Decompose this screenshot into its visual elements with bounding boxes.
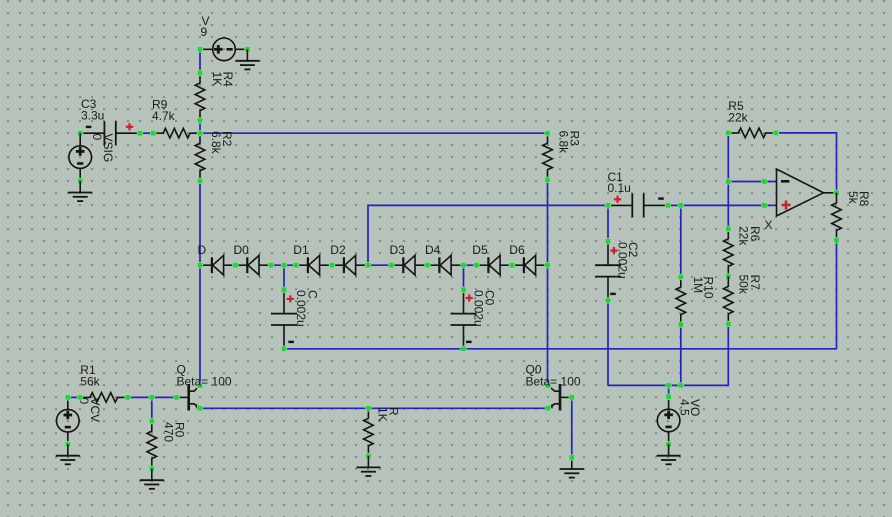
label R1 56k bbox=[80, 363, 100, 388]
label C2 0.002u bbox=[616, 242, 641, 279]
transistor Q bbox=[174, 383, 203, 411]
wire bbox=[608, 324, 728, 385]
label R3 6.8k bbox=[556, 131, 581, 155]
label D1 bbox=[293, 243, 309, 257]
svg-text:D5: D5 bbox=[472, 243, 488, 257]
svg-text:X: X bbox=[765, 218, 773, 232]
wire bbox=[668, 204, 777, 206]
label R4 1K bbox=[210, 72, 235, 88]
node Q0 base ground bbox=[569, 455, 574, 460]
wire bbox=[271, 264, 296, 266]
resistor R0 bbox=[147, 418, 157, 471]
svg-text:0: 0 bbox=[90, 134, 104, 141]
wire bbox=[571, 397, 573, 457]
label Q Beta bbox=[177, 363, 232, 389]
label D5 bbox=[472, 243, 488, 257]
resistor R1 bbox=[77, 393, 130, 403]
label D6 bbox=[509, 243, 525, 257]
wire bbox=[836, 240, 838, 348]
label C1 0.1u bbox=[608, 170, 631, 195]
C3 polarity bbox=[86, 123, 133, 130]
capacitor C0 bbox=[451, 287, 477, 351]
svg-text:0.002u: 0.002u bbox=[471, 290, 485, 327]
label VCV 0 bbox=[77, 398, 102, 423]
diode D4 bbox=[425, 255, 466, 275]
label VSIG 0 bbox=[90, 134, 115, 163]
wire bbox=[284, 348, 837, 350]
capacitor C2 bbox=[595, 239, 621, 304]
resistor R6 bbox=[724, 226, 734, 279]
svg-text:6.8k: 6.8k bbox=[209, 131, 223, 155]
svg-text:Beta= 100: Beta= 100 bbox=[177, 374, 232, 388]
resistor R7 bbox=[724, 276, 734, 326]
capacitor C bbox=[271, 287, 297, 351]
resistor R5 bbox=[726, 128, 779, 138]
wire bbox=[607, 205, 609, 241]
ground (R0) bbox=[140, 469, 164, 489]
wire bbox=[368, 264, 391, 266]
svg-text:9: 9 bbox=[201, 25, 208, 39]
ground (VCV) bbox=[56, 444, 80, 464]
svg-text:0.002u: 0.002u bbox=[616, 242, 630, 279]
label D3 bbox=[390, 243, 406, 257]
diode D6 bbox=[509, 255, 550, 275]
resistor R2 bbox=[195, 133, 205, 183]
wire bbox=[140, 132, 153, 134]
wire bbox=[680, 325, 682, 386]
label VO 4.5 bbox=[678, 399, 703, 416]
svg-text:D2: D2 bbox=[330, 243, 346, 257]
wire bbox=[547, 180, 549, 386]
wire bbox=[668, 385, 670, 396]
label R 1K bbox=[375, 407, 400, 422]
resistor R4 bbox=[195, 70, 205, 123]
wire bbox=[200, 407, 548, 409]
svg-text:Beta= 100: Beta= 100 bbox=[526, 374, 581, 388]
label D bbox=[198, 243, 207, 257]
wire bbox=[463, 265, 465, 290]
label R9 4.7k bbox=[152, 97, 176, 123]
ground (R) bbox=[356, 456, 380, 476]
svg-text:22k: 22k bbox=[737, 226, 751, 246]
label R0 470 bbox=[161, 422, 186, 442]
wire bbox=[200, 132, 548, 134]
svg-text:470: 470 bbox=[161, 422, 175, 442]
svg-text:5k: 5k bbox=[846, 191, 860, 205]
svg-text:0.002u: 0.002u bbox=[294, 290, 308, 327]
label V bbox=[201, 14, 210, 39]
diode D0 bbox=[233, 255, 274, 275]
resistor R bbox=[364, 406, 374, 459]
label Q0 Beta bbox=[526, 363, 581, 389]
wire bbox=[128, 396, 177, 398]
node junction VO bbox=[666, 383, 671, 388]
node junction R0 bbox=[149, 395, 154, 400]
wire bbox=[68, 396, 80, 398]
label D2 bbox=[330, 243, 346, 257]
svg-text:D3: D3 bbox=[390, 243, 406, 257]
node junction R10 top bbox=[678, 203, 683, 208]
diode D3 bbox=[389, 255, 430, 275]
label D4 bbox=[425, 243, 441, 257]
node junction op-amp inverting bbox=[726, 179, 731, 184]
source VO 4.5 bbox=[657, 394, 680, 447]
wire bbox=[199, 49, 201, 73]
svg-text:22k: 22k bbox=[728, 110, 748, 124]
svg-text:0.1u: 0.1u bbox=[608, 181, 631, 195]
transistor Q0 bbox=[545, 383, 574, 411]
svg-text:4.7k: 4.7k bbox=[152, 109, 176, 123]
diode D1 bbox=[293, 255, 334, 275]
ground (VO) bbox=[657, 444, 681, 464]
resistor R9 bbox=[151, 128, 201, 138]
label C 0.002u bbox=[294, 290, 319, 327]
svg-text:4.5: 4.5 bbox=[678, 399, 692, 416]
ground (battery V) bbox=[235, 49, 259, 69]
wire bbox=[728, 181, 776, 183]
wire bbox=[151, 397, 153, 421]
wire bbox=[464, 264, 477, 266]
wire bbox=[199, 265, 201, 385]
diode D2 bbox=[329, 255, 370, 275]
ground (VSIG) bbox=[68, 181, 92, 201]
resistor R8 bbox=[832, 193, 842, 243]
wire bbox=[776, 133, 837, 193]
wire bbox=[368, 205, 608, 265]
resistor R3 bbox=[543, 131, 553, 183]
label C3 3.3u bbox=[81, 97, 104, 123]
svg-text:6.8k: 6.8k bbox=[556, 131, 570, 155]
wire bbox=[199, 121, 201, 134]
capacitor C3 bbox=[78, 121, 143, 145]
source VCV bbox=[57, 395, 80, 447]
svg-text:D0: D0 bbox=[234, 243, 250, 257]
wire bbox=[199, 181, 201, 265]
resistor R10 bbox=[676, 274, 686, 327]
capacitor C1 bbox=[605, 193, 670, 217]
wire bbox=[607, 300, 609, 385]
C polarity bbox=[287, 295, 294, 342]
svg-text:D: D bbox=[198, 243, 207, 257]
source VSIG bbox=[69, 133, 92, 184]
svg-text:D4: D4 bbox=[425, 243, 441, 257]
svg-text:3.3u: 3.3u bbox=[81, 109, 104, 123]
label D0 bbox=[234, 243, 250, 257]
svg-text:50k: 50k bbox=[737, 275, 751, 295]
diode D5 bbox=[474, 255, 515, 275]
node X label bbox=[765, 218, 773, 232]
wire bbox=[680, 205, 682, 277]
label R7 50k bbox=[737, 275, 762, 295]
diode D bbox=[197, 255, 238, 275]
op-amp U1 bbox=[762, 169, 840, 216]
C2 polarity bbox=[610, 247, 617, 294]
battery V 9V bbox=[197, 38, 250, 61]
label C0 0.002u bbox=[471, 290, 496, 327]
label R10 1M bbox=[691, 277, 716, 299]
node junction R10 bottom bbox=[678, 383, 683, 388]
label R5 22k bbox=[728, 99, 748, 125]
C1 polarity bbox=[614, 196, 664, 203]
svg-text:D1: D1 bbox=[293, 243, 309, 257]
label R8 5k bbox=[846, 191, 871, 207]
wire bbox=[727, 133, 729, 229]
C0 polarity bbox=[466, 294, 473, 342]
svg-text:D6: D6 bbox=[509, 243, 525, 257]
node junction R9/R2/R4 bbox=[197, 131, 202, 136]
label R6 22k bbox=[737, 226, 762, 246]
svg-text:1M: 1M bbox=[691, 277, 705, 294]
svg-text:1K: 1K bbox=[375, 407, 389, 422]
wire bbox=[283, 265, 285, 290]
svg-text:56k: 56k bbox=[80, 374, 100, 388]
label R2 6.8k bbox=[209, 131, 234, 155]
node junction diode row / C bbox=[281, 263, 286, 268]
svg-text:1K: 1K bbox=[210, 72, 224, 87]
ground (Q0 base) bbox=[560, 458, 584, 478]
